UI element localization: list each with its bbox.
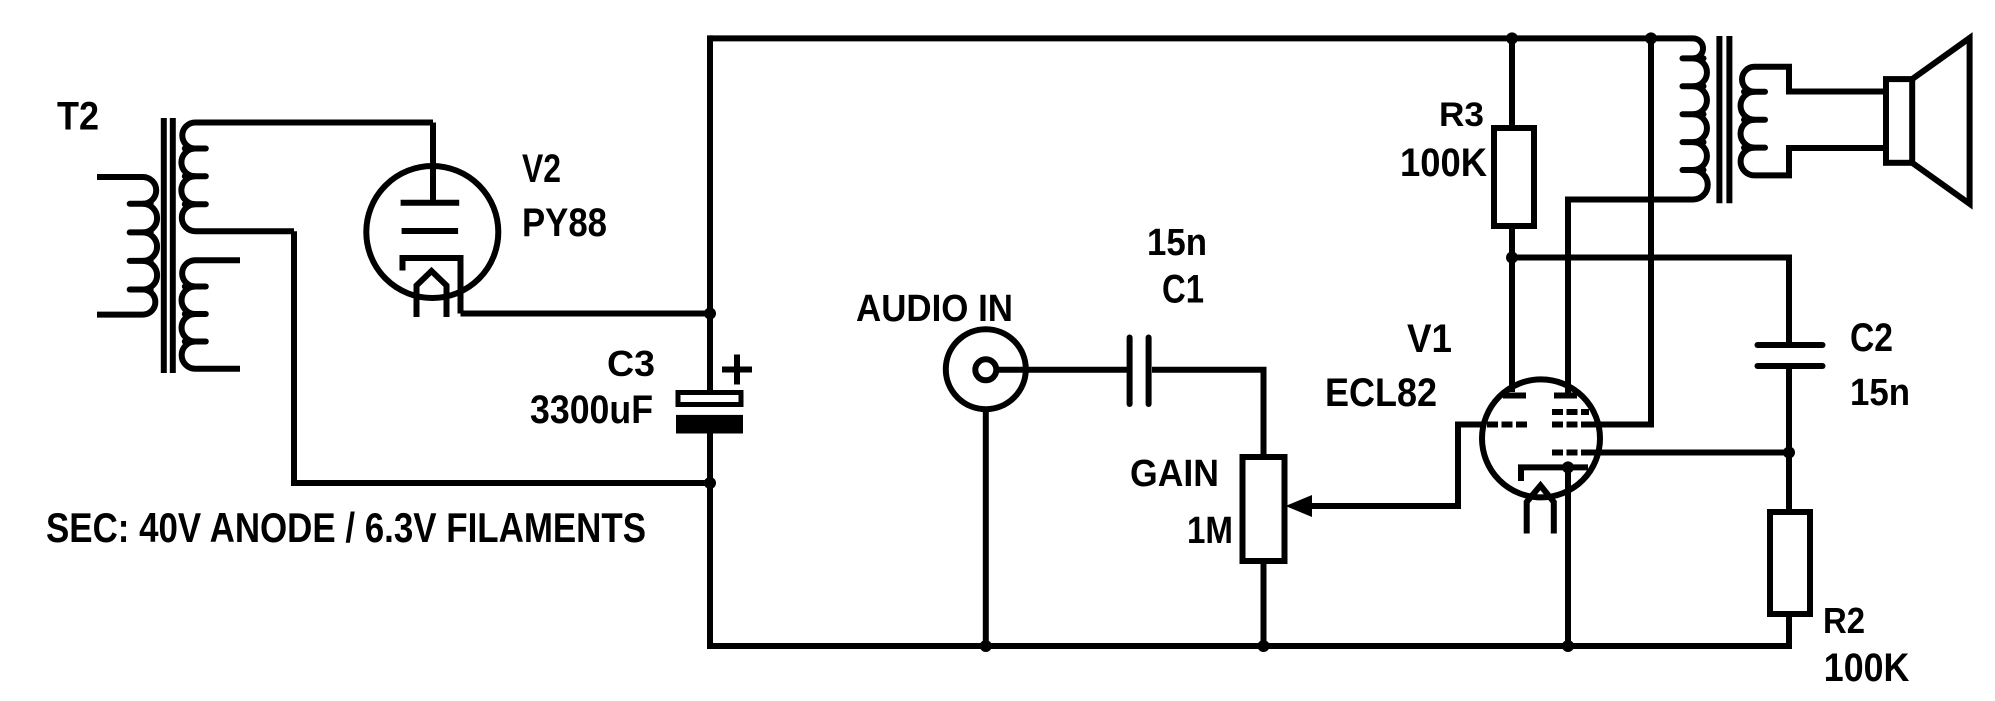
- wire V1 cathode to ground bus: [1565, 467, 1571, 646]
- svg-text:V2: V2: [522, 147, 561, 191]
- transformer T2 primary winding: [97, 177, 157, 315]
- wire secondary top to speaker: [1755, 67, 1887, 92]
- value 100K (R2): [1824, 646, 1910, 690]
- svg-text:100K: 100K: [1824, 646, 1910, 690]
- transformer T2 filament winding: [182, 260, 240, 369]
- node R3 top on HT bus: [1506, 32, 1518, 44]
- svg-text:C3: C3: [607, 343, 655, 384]
- svg-text:15n: 15n: [1850, 372, 1910, 414]
- capacitor C2: [1758, 345, 1823, 366]
- node C3 negative / secondary junction: [704, 477, 716, 489]
- transformer output primary winding: [1683, 38, 1708, 199]
- svg-text:ECL82: ECL82: [1325, 371, 1437, 415]
- wire left bus upper (to C3): [707, 35, 713, 391]
- label R2: [1823, 600, 1865, 641]
- capacitor C3 positive plate: [678, 393, 741, 405]
- transformer T2 core: [164, 118, 173, 373]
- transformer output core: [1719, 36, 1729, 203]
- svg-text:GAIN: GAIN: [1130, 453, 1219, 495]
- capacitor C3 negative plate: [676, 415, 743, 434]
- wire V2 anode lead: [430, 123, 436, 204]
- capacitor C3 plus sign: [722, 355, 752, 385]
- connector AUDIO IN jack: [946, 329, 1026, 409]
- tube V1 pentode control grid (dashed): [1552, 450, 1589, 456]
- wire R3 top lead: [1509, 38, 1515, 128]
- resistor R2 body: [1770, 512, 1810, 614]
- value 1M: [1187, 510, 1233, 552]
- transformer output secondary winding: [1741, 67, 1765, 176]
- svg-text:R2: R2: [1823, 600, 1865, 641]
- wire C2 bottom lead: [1786, 366, 1792, 453]
- svg-text:C2: C2: [1850, 316, 1893, 360]
- wire R3 bottom lead: [1509, 226, 1515, 258]
- tube V1 screen grid (dashed): [1552, 422, 1589, 428]
- tube V1 pentode anode: [1554, 393, 1577, 399]
- note SEC: 40V ANODE / 6.3V FILAMENTS: [46, 504, 646, 551]
- node V2 cathode / HT junction: [704, 308, 716, 320]
- label C1: [1162, 268, 1204, 312]
- label C2: [1850, 316, 1893, 360]
- node V1 cathode: [1562, 461, 1574, 473]
- label V2: [522, 147, 561, 191]
- tube V1 suppressor grid (dashed): [1552, 409, 1589, 415]
- value 15n (C1): [1147, 222, 1207, 264]
- wire GAIN wiper to V1 grid: [1310, 425, 1486, 507]
- node screen grid tap on HT bus: [1645, 32, 1657, 44]
- svg-text:15n: 15n: [1147, 222, 1207, 264]
- svg-text:3300uF: 3300uF: [530, 388, 653, 432]
- svg-text:100K: 100K: [1400, 141, 1487, 185]
- tube V2 cathode bar: [402, 228, 459, 234]
- svg-text:R3: R3: [1439, 96, 1484, 134]
- label C3: [607, 343, 655, 384]
- value 3300uF: [530, 388, 653, 432]
- speaker: [1886, 38, 1970, 204]
- wire output primary to V1 pentode anode: [1568, 200, 1693, 397]
- svg-text:SEC: 40V ANODE / 6.3V FILAMENT: SEC: 40V ANODE / 6.3V FILAMENTS: [46, 504, 646, 551]
- label T2: [57, 95, 99, 139]
- wire GAIN bottom lead: [1261, 561, 1267, 646]
- node C2 / R2 / grid3 junction: [1783, 447, 1795, 459]
- wire HT bus to V1 screen grid: [1589, 38, 1651, 424]
- node AUDIO IN ground: [980, 640, 992, 652]
- svg-text:AUDIO IN: AUDIO IN: [856, 288, 1013, 330]
- svg-text:V1: V1: [1407, 317, 1452, 361]
- wire AUDIO IN ground lead: [983, 409, 989, 646]
- tube V1 triode grid (dashed): [1487, 422, 1529, 428]
- wire R3 junction to C2: [1512, 258, 1789, 346]
- wire T2 secondary to ground bus: [294, 231, 710, 483]
- value PY88: [522, 201, 607, 245]
- tube V1 cathode bar: [1521, 467, 1588, 481]
- value 100K (R3): [1400, 141, 1487, 185]
- svg-text:C1: C1: [1162, 268, 1204, 312]
- label GAIN: [1130, 453, 1219, 495]
- tube V1 heater: [1527, 486, 1554, 534]
- node V1 cathode ground: [1562, 640, 1574, 652]
- potentiometer GAIN body: [1243, 457, 1285, 561]
- label AUDIO IN: [856, 288, 1013, 330]
- tube V2 heater: [417, 271, 447, 317]
- wire top HT bus: [710, 35, 1693, 41]
- tube V1 triode anode: [1503, 393, 1526, 399]
- wire V1 grid3 to C2/R2 node: [1589, 450, 1789, 456]
- resistor R3 body: [1494, 128, 1534, 226]
- wire C1 to GAIN pot: [1152, 370, 1264, 457]
- label V1: [1407, 317, 1452, 361]
- svg-text:1M: 1M: [1187, 510, 1233, 552]
- capacitor C1: [1130, 338, 1149, 405]
- value ECL82: [1325, 371, 1437, 415]
- wire AUDIO IN to C1: [997, 367, 1127, 373]
- svg-text:T2: T2: [57, 95, 99, 139]
- tube V2 cathode bracket: [403, 258, 461, 314]
- wire bottom ground bus: [707, 643, 1789, 649]
- wire R3 junction to V1 triode anode: [1509, 258, 1515, 393]
- wire R2 top lead: [1786, 453, 1792, 513]
- wire left bus lower (from C3): [707, 433, 713, 646]
- wire secondary bottom to speaker: [1755, 148, 1887, 175]
- svg-text:PY88: PY88: [522, 201, 607, 245]
- tube V2 anode plate: [401, 200, 460, 206]
- label R3: [1439, 96, 1484, 134]
- node GAIN ground: [1258, 640, 1270, 652]
- wire V2 cathode to HT bus: [461, 311, 711, 317]
- wire R2 bottom lead: [1786, 614, 1792, 649]
- node R3 bottom junction: [1506, 252, 1518, 264]
- potentiometer GAIN wiper arrow: [1286, 495, 1313, 517]
- transformer T2 secondary (anode) winding: [181, 123, 433, 232]
- value 15n (C2): [1850, 372, 1910, 414]
- tube V1 envelope: [1482, 379, 1600, 497]
- tube V2 envelope: [366, 166, 498, 298]
